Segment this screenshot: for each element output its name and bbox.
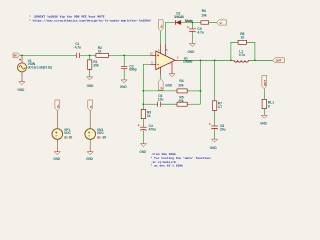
ground VP1	[53, 152, 61, 161]
ground R1	[87, 77, 95, 88]
wire R8 parallel loop	[231, 42, 255, 60]
svg-text:OUT: OUT	[276, 59, 282, 63]
wire C5 stubs	[191, 23, 193, 44]
svg-text:V-: V-	[89, 105, 93, 108]
svg-text:4.7: 4.7	[218, 105, 223, 109]
wire feedback row1	[143, 90, 200, 92]
node junction R1 tap	[89, 55, 91, 57]
capacitor C3	[121, 64, 137, 71]
node junction zobel tap	[214, 59, 216, 61]
ground C5	[188, 44, 196, 54]
inductor L1	[234, 50, 248, 62]
wire C3 stubs	[123, 55, 125, 80]
ground RL1	[260, 115, 268, 125]
resistor R2	[96, 46, 109, 57]
svg-text:20u: 20u	[220, 127, 226, 131]
svg-text:VDC: VDC	[97, 131, 105, 135]
svg-text:20k: 20k	[93, 64, 99, 68]
node junction L1 right	[254, 59, 256, 61]
node junction mute/C5	[192, 22, 194, 24]
voltage source V1	[18, 59, 52, 72]
svg-text:dc 30: dc 30	[64, 136, 72, 140]
svg-text:GND: GND	[165, 84, 173, 88]
node junction L1 left	[230, 59, 232, 61]
capacitor C6	[157, 94, 163, 107]
wire R3 to C4	[142, 119, 144, 128]
wire feedback row2	[143, 103, 200, 105]
svg-text:dc -30: dc -30	[97, 136, 106, 140]
svg-text:* https://www.circuitbasics.co: * https://www.circuitbasics.com/design-h…	[29, 18, 152, 22]
resistor RL1	[262, 99, 274, 108]
ground C3	[120, 80, 128, 89]
resistor R6	[201, 9, 209, 24]
node junction feedback row1 left	[142, 90, 144, 92]
wire V+ flag to op-amp	[160, 31, 162, 44]
capacitor C1	[75, 42, 81, 58]
svg-text:20k: 20k	[178, 99, 184, 103]
svg-text:V+: V+	[56, 104, 60, 108]
wire VP1 top	[56, 111, 58, 129]
svg-text:dc 0 ac 1 sin(0 1 1k): dc 0 ac 1 sin(0 1 1k)	[28, 65, 52, 69]
wire zobel vertical	[214, 60, 216, 139]
wire VN1 top	[89, 111, 91, 129]
wire output net	[181, 59, 273, 61]
node junction feedback row2 left	[142, 103, 144, 105]
svg-text:10k: 10k	[201, 14, 207, 18]
capacitor C4 polarized	[138, 124, 156, 132]
wire R1 stubs	[89, 55, 91, 77]
power flag V- above VN1	[88, 100, 93, 111]
wire input net	[20, 54, 151, 56]
resistor R4	[177, 79, 187, 93]
global label V- mute	[217, 20, 227, 25]
svg-text:.ic v(/mute)=0: .ic v(/mute)=0	[151, 160, 176, 164]
svg-text:680p: 680p	[129, 68, 136, 72]
node junction feedback row1 right	[200, 90, 202, 92]
resistor R5	[177, 95, 187, 106]
wire mute net	[165, 23, 216, 45]
svg-text:* for testing the 'mute' funct: * for testing the 'mute' function:	[151, 156, 212, 160]
voltage source VN1	[85, 128, 106, 140]
svg-text:GND: GND	[210, 146, 218, 150]
svg-text:1k: 1k	[147, 114, 151, 118]
svg-text:0.7u: 0.7u	[239, 53, 245, 57]
wire VP1 bottom	[56, 139, 58, 151]
spice directive text bottom	[151, 153, 212, 167]
power flag OUT above RL1	[262, 75, 267, 89]
wire C4 to ground	[142, 130, 144, 143]
wire RL1	[263, 89, 265, 115]
voltage source VP1	[52, 128, 72, 140]
svg-text:* .SUBCKT lm3886 Vip Vin VDD V: * .SUBCKT lm3886 Vip Vin VDD VEE Vout MU…	[29, 15, 105, 19]
svg-text:10u: 10u	[158, 97, 164, 101]
node junction C3 tap	[123, 55, 125, 57]
wire feedback vertical from output	[199, 60, 201, 104]
ground zobel	[210, 139, 218, 150]
svg-text:OUT: OUT	[263, 80, 267, 86]
svg-text:V-: V-	[220, 21, 223, 25]
ground C4	[139, 144, 147, 154]
capacitor C8 polarized	[209, 123, 225, 131]
resistor R1	[87, 60, 98, 69]
node junction feedback tap	[200, 59, 202, 61]
wire V- flag stub	[160, 75, 162, 79]
svg-text:V-: V-	[159, 87, 163, 90]
power flag V- below op-amp	[158, 79, 163, 90]
ground VN1	[86, 152, 94, 161]
op-amp U1 LM3886	[150, 45, 193, 75]
svg-text:GND: GND	[120, 85, 128, 89]
svg-text:* ac dec 10 1 100k: * ac dec 10 1 100k	[151, 164, 184, 168]
global label IN	[13, 53, 20, 58]
wire inverting input	[143, 64, 150, 109]
node junction at V1 tap	[21, 55, 23, 57]
capacitor C5 polarized	[187, 26, 204, 34]
resistor R3	[141, 109, 151, 118]
svg-text:GND: GND	[17, 88, 25, 92]
svg-text:IN: IN	[14, 54, 17, 58]
svg-text:10: 10	[241, 35, 245, 39]
svg-text:4.7u: 4.7u	[75, 46, 81, 50]
svg-text:8: 8	[268, 104, 270, 108]
svg-text:GND: GND	[86, 157, 94, 161]
wire V1 to ground	[21, 72, 23, 82]
diode D1	[174, 12, 184, 25]
wire V1 stub	[21, 55, 23, 63]
svg-text:GND: GND	[188, 50, 196, 54]
power flag V+ above op-amp	[158, 20, 163, 31]
svg-text:GND: GND	[139, 150, 147, 154]
svg-text:GND: GND	[87, 84, 95, 88]
spice comment text top	[29, 15, 152, 23]
svg-text:1k: 1k	[98, 50, 102, 54]
wire VN1 bottom	[89, 139, 91, 151]
ground V1	[17, 82, 25, 92]
svg-text:20k: 20k	[178, 83, 184, 87]
ground op-amp pin7	[165, 74, 175, 88]
resistor R8	[238, 32, 247, 44]
svg-text:.tran 10u 100m: .tran 10u 100m	[151, 153, 176, 156]
resistor R7	[212, 101, 222, 110]
svg-text:VDC: VDC	[64, 131, 72, 135]
svg-text:V+: V+	[159, 24, 163, 28]
svg-text:4.7u: 4.7u	[197, 30, 203, 34]
svg-text:470u: 470u	[149, 128, 156, 132]
svg-text:R6: R6	[202, 9, 206, 13]
svg-text:GND: GND	[260, 122, 268, 126]
power flag V+ above VP1	[55, 100, 60, 111]
svg-text:GND: GND	[53, 157, 61, 161]
svg-text:1N4148: 1N4148	[174, 15, 184, 19]
global label OUT	[273, 58, 285, 63]
